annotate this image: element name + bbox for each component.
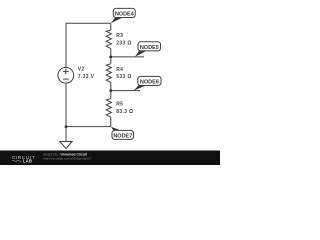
svg-text:83.3 Ω: 83.3 Ω bbox=[116, 109, 133, 115]
svg-text:NODE7: NODE7 bbox=[113, 134, 132, 140]
svg-text:R5: R5 bbox=[116, 102, 123, 108]
svg-text:R3: R3 bbox=[116, 33, 123, 39]
svg-text:NODE4: NODE4 bbox=[115, 12, 135, 18]
svg-text:LAB: LAB bbox=[23, 159, 32, 164]
svg-text:NODE6: NODE6 bbox=[140, 80, 159, 86]
svg-text:533 Ω: 533 Ω bbox=[116, 74, 132, 80]
svg-text:R4: R4 bbox=[116, 67, 123, 73]
svg-text:http://circuitlab.com/c/63Spmz: http://circuitlab.com/c/63Spmzg627 bbox=[43, 156, 91, 160]
svg-text:V2: V2 bbox=[78, 67, 85, 73]
svg-text:233 Ω: 233 Ω bbox=[116, 40, 132, 46]
svg-text:NODE5: NODE5 bbox=[140, 45, 159, 51]
svg-text:7.33 V: 7.33 V bbox=[78, 74, 95, 80]
